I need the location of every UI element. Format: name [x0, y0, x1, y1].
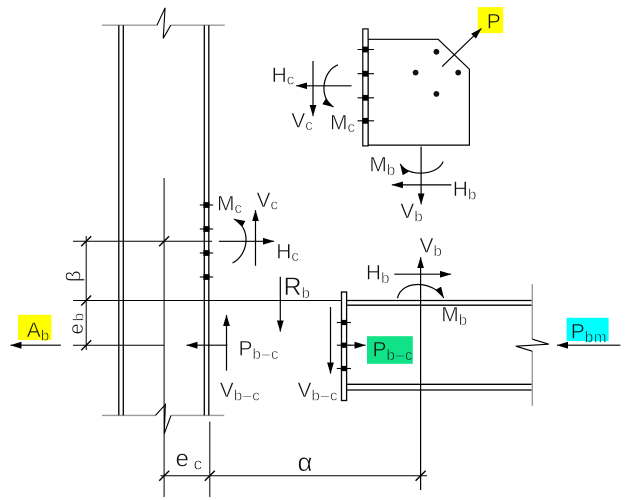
- svg-text:Hb: Hb: [453, 178, 477, 204]
- svg-text:Vc: Vc: [257, 189, 279, 214]
- svg-text:Rb: Rb: [284, 273, 311, 302]
- svg-text:Vc: Vc: [291, 109, 313, 134]
- svg-text:Pb–c: Pb–c: [239, 338, 280, 364]
- svg-text:Vb: Vb: [400, 200, 423, 226]
- svg-text:e c: e c: [176, 446, 203, 474]
- svg-text:Hc: Hc: [272, 64, 296, 89]
- svg-text:Mc: Mc: [330, 112, 356, 137]
- svg-text:Hb: Hb: [366, 261, 390, 287]
- svg-text:Hc: Hc: [276, 240, 300, 265]
- svg-text:Vb–c: Vb–c: [220, 379, 261, 405]
- svg-text:β: β: [64, 270, 86, 282]
- svg-text:Mb: Mb: [369, 154, 396, 180]
- svg-text:eb: eb: [66, 313, 88, 334]
- svg-text:Mc: Mc: [217, 193, 243, 218]
- svg-text:Mb: Mb: [441, 303, 468, 329]
- svg-text:Vb: Vb: [420, 235, 443, 261]
- svg-text:P: P: [487, 11, 501, 34]
- svg-text:α: α: [298, 447, 313, 477]
- svg-text:Vb–c: Vb–c: [298, 379, 339, 405]
